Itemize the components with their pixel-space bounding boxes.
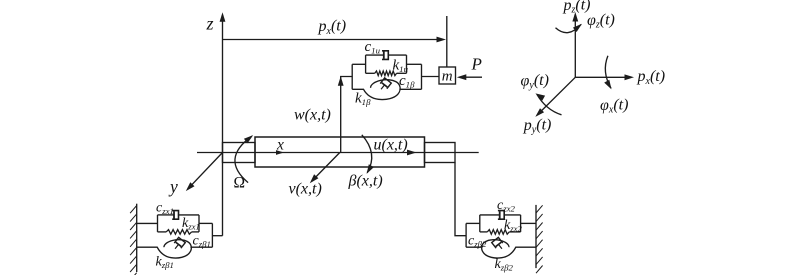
- damper c1u: [382, 51, 388, 60]
- v(x,t) arrow: [312, 153, 340, 182]
- svg-text:x: x: [276, 137, 284, 154]
- svg-text:v(x,t): v(x,t): [289, 181, 322, 198]
- left bearing inner box: [157, 215, 159, 232]
- x arrow on axis: [276, 150, 284, 155]
- triad z axis: [574, 15, 576, 78]
- shaft main body: [255, 137, 425, 167]
- mass support line: [446, 16, 448, 67]
- damper czx2: [498, 211, 504, 220]
- phi_x arc: [605, 56, 611, 88]
- svg-text:u(x,t): u(x,t): [374, 137, 408, 154]
- svg-text:px(t): px(t): [318, 18, 347, 37]
- disk support outer frame right edge: [421, 64, 423, 89]
- mass m: [439, 67, 456, 84]
- z axis: [222, 15, 224, 236]
- w(x,t) arrow line: [341, 77, 353, 153]
- left bearing right edge: [211, 223, 213, 247]
- beta(x,t) rotation arc: [362, 135, 372, 173]
- right bearing left edge: [465, 223, 467, 247]
- svg-text:φx(t): φx(t): [600, 97, 628, 116]
- triad x axis: [575, 76, 631, 78]
- svg-text:φz(t): φz(t): [587, 12, 615, 31]
- triad y axis: [537, 77, 575, 115]
- spring kzx2: [487, 230, 509, 235]
- left bearing top branch: [137, 222, 158, 224]
- svg-text:P: P: [471, 55, 482, 74]
- p_x(t) force arrow: [223, 39, 438, 41]
- rotational damper c1beta: [378, 78, 392, 92]
- left wall: [136, 204, 138, 272]
- svg-text:Ω: Ω: [234, 175, 246, 192]
- shaft left journal: [223, 143, 256, 163]
- spring kzx1: [166, 230, 191, 235]
- inner box disk support: [365, 55, 367, 73]
- svg-text:φy(t): φy(t): [521, 72, 549, 91]
- shaft center line: [197, 152, 479, 154]
- rotational spring loop kzbeta1: [137, 240, 213, 258]
- u(x,t) arrow on axis: [407, 150, 417, 156]
- Omega spin arc: [235, 136, 252, 182]
- y axis: [188, 153, 223, 190]
- svg-text:z: z: [206, 14, 214, 34]
- rotational damper czbeta2: [492, 237, 506, 251]
- rotational spring loop k1beta: [352, 80, 421, 100]
- damper czx1: [172, 211, 178, 220]
- rotational spring loop kzbeta2: [466, 240, 536, 258]
- disk support outer frame top edge: [352, 63, 365, 65]
- right support line: [455, 163, 466, 236]
- rotational damper czbeta1: [172, 237, 186, 251]
- svg-text:β(x,t): β(x,t): [348, 173, 383, 190]
- right wall hatching: [536, 205, 543, 273]
- phi_y arc: [537, 94, 562, 115]
- svg-text:py(t): py(t): [523, 117, 552, 136]
- spring k1u: [375, 71, 397, 76]
- force P arrow: [460, 76, 483, 78]
- svg-text:px(t): px(t): [637, 68, 666, 87]
- left support link: [212, 235, 222, 237]
- right wall: [535, 205, 537, 268]
- link to mass: [422, 76, 440, 78]
- shaft right journal: [425, 143, 456, 163]
- svg-text:m: m: [442, 69, 453, 85]
- svg-text:y: y: [168, 177, 178, 197]
- svg-text:w(x,t): w(x,t): [294, 107, 331, 124]
- right bearing top branch: [466, 222, 480, 224]
- right bearing inner box: [479, 215, 481, 232]
- disk support outer frame left edge: [351, 64, 353, 89]
- phi_z arc: [556, 24, 582, 32]
- left wall hatching: [130, 206, 137, 275]
